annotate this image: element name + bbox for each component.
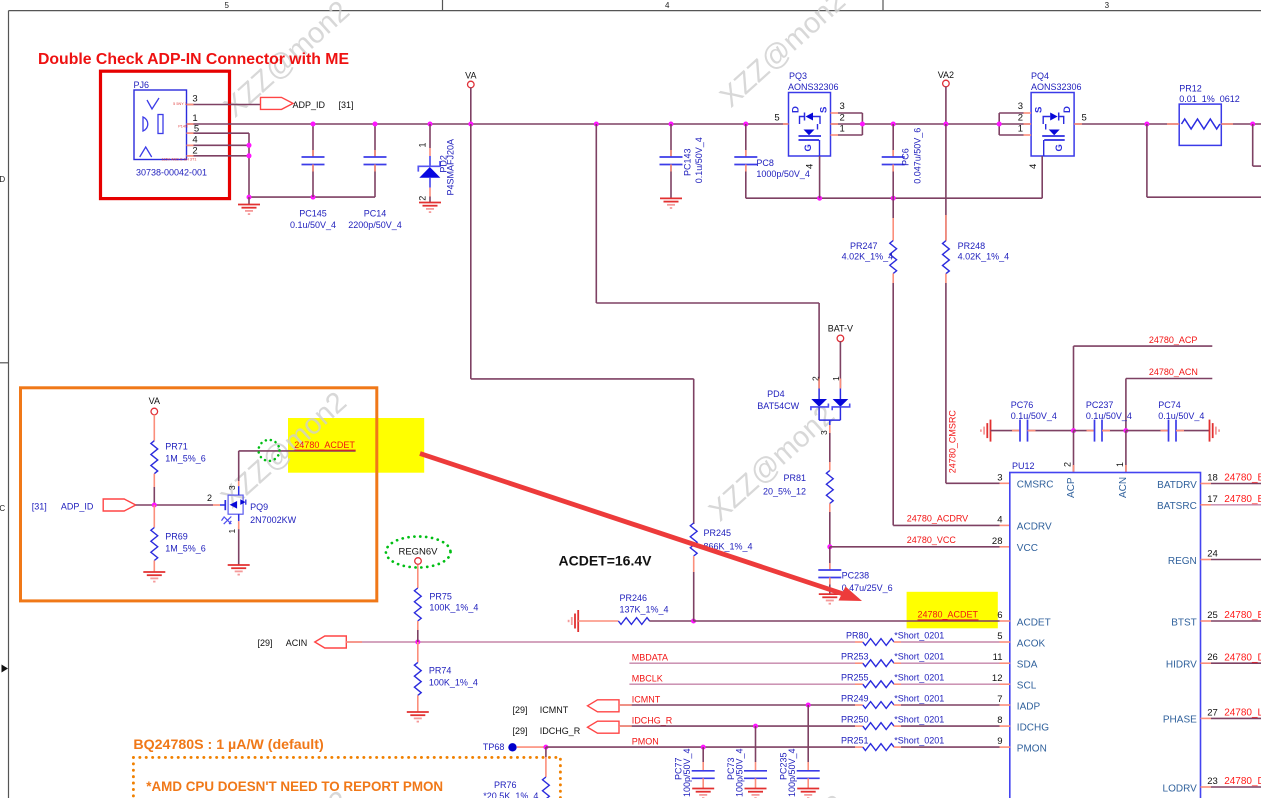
svg-text:6: 6 xyxy=(997,610,1002,621)
svg-text:PC6: PC6 xyxy=(901,148,911,166)
svg-text:REGN6V: REGN6V xyxy=(398,547,438,558)
svg-text:[29]: [29] xyxy=(513,726,528,736)
resistor PR81 xyxy=(826,471,833,504)
svg-text:2: 2 xyxy=(418,196,428,201)
svg-text:18: 18 xyxy=(1207,473,1218,484)
svg-text:S: S xyxy=(1034,107,1045,113)
resistor PR255 xyxy=(855,683,863,685)
svg-text:4: 4 xyxy=(805,164,816,169)
svg-text:PC237: PC237 xyxy=(1086,400,1114,410)
capacitor PC238 xyxy=(829,547,831,570)
yellow highlight 1 (24780_ACDET at PQ9) xyxy=(288,418,424,473)
svg-text:9: 9 xyxy=(997,736,1002,747)
resistor PR250 xyxy=(855,725,863,727)
svg-text:5 5NY 1: 5 5NY 1 xyxy=(173,102,187,106)
svg-text:1: 1 xyxy=(1018,124,1023,135)
svg-text:24780_CMSRC: 24780_CMSRC xyxy=(947,410,957,474)
svg-text:27: 27 xyxy=(1207,707,1218,718)
svg-text:PQ3: PQ3 xyxy=(789,71,807,81)
svg-text:4: 4 xyxy=(665,1,670,10)
svg-text:*Short_0201: *Short_0201 xyxy=(894,715,944,725)
svg-text:24780_DRVL: 24780_DRVL xyxy=(1224,776,1261,787)
red arrow annotation xyxy=(420,454,848,596)
yellow highlight 2 (24780_ACDET at pin 6) xyxy=(907,592,998,629)
svg-text:*Short_0201: *Short_0201 xyxy=(894,736,944,746)
svg-text:BTST: BTST xyxy=(1171,617,1197,628)
svg-text:PMON: PMON xyxy=(632,737,659,747)
svg-text:3: 3 xyxy=(840,101,845,112)
capacitor PC14 xyxy=(374,124,376,157)
svg-text:PHASE: PHASE xyxy=(1163,715,1197,726)
resistor PR80 xyxy=(855,641,863,643)
capacitor PC145 xyxy=(312,124,314,157)
resistor PR249 xyxy=(855,704,863,706)
svg-text:*Short_0201: *Short_0201 xyxy=(894,652,944,662)
svg-text:IDCHG_R: IDCHG_R xyxy=(540,726,581,736)
svg-text:4.02K_1%_4: 4.02K_1%_4 xyxy=(842,252,894,262)
resistor PR74 xyxy=(417,642,419,662)
red callout box around PJ6 xyxy=(101,71,230,198)
svg-text:2: 2 xyxy=(1018,113,1023,124)
svg-text:24780_DRVH: 24780_DRVH xyxy=(1224,652,1261,663)
ground at PC143 xyxy=(660,197,682,199)
wire: rail to PD4 pin2 (down at x=596) xyxy=(594,122,599,127)
wire: PJ6 pins 5/4/2 to ground rail xyxy=(248,133,250,197)
resistor PR247 xyxy=(892,198,894,218)
svg-text:*Short_0201: *Short_0201 xyxy=(894,673,944,683)
resistor PR251 xyxy=(855,746,863,748)
svg-text:TP68: TP68 xyxy=(483,742,505,752)
capacitor PC73 xyxy=(755,726,757,762)
svg-text:23: 23 xyxy=(1207,776,1218,787)
ground at PC238 xyxy=(819,593,841,595)
svg-text:AONS32306: AONS32306 xyxy=(1031,82,1082,92)
svg-text:P4SMAFJ20A: P4SMAFJ20A xyxy=(446,139,456,196)
wire: ICMNT/IADP row (pin 7) xyxy=(619,704,855,706)
ground left of PC76 xyxy=(990,420,992,442)
svg-text:ACN: ACN xyxy=(1118,477,1129,498)
wire: PR81 to VCC pin 28 xyxy=(829,512,831,547)
svg-text:PR248: PR248 xyxy=(958,241,986,251)
svg-text:8: 8 xyxy=(997,715,1002,726)
svg-text:PMON: PMON xyxy=(1017,743,1047,754)
svg-text:1M_5%_6: 1M_5%_6 xyxy=(165,544,206,554)
svg-text:4: 4 xyxy=(997,514,1002,525)
svg-text:BATDRV: BATDRV xyxy=(1157,480,1197,491)
svg-text:3: 3 xyxy=(1018,101,1023,112)
svg-text:VA: VA xyxy=(149,396,160,406)
svg-text:100K_1%_4: 100K_1%_4 xyxy=(429,678,478,688)
svg-text:100p/50V_4: 100p/50V_4 xyxy=(787,748,797,797)
svg-text:G: G xyxy=(803,144,814,151)
wire: PMON row (pin 9) xyxy=(543,745,548,750)
svg-text:D: D xyxy=(0,175,5,184)
svg-text:ADP_ID: ADP_ID xyxy=(293,100,326,110)
svg-text:PR80: PR80 xyxy=(846,631,869,641)
wire: rail PQ3 right to PQ4 left xyxy=(831,123,1032,125)
green ok-mark circle xyxy=(259,440,280,461)
svg-text:VCC: VCC xyxy=(1017,543,1038,554)
wire: PQ9 drain lead xyxy=(238,486,240,495)
svg-text:*20.5K_1%_4: *20.5K_1%_4 xyxy=(483,791,538,798)
svg-text:24780_VCC: 24780_VCC xyxy=(907,535,957,545)
svg-text:2N7002KW: 2N7002KW xyxy=(250,515,297,525)
svg-text:LODRV: LODRV xyxy=(1163,783,1198,794)
svg-text:CMSRC: CMSRC xyxy=(1017,480,1054,491)
svg-text:*Short_0201: *Short_0201 xyxy=(894,631,944,641)
svg-text:4: 4 xyxy=(1028,164,1039,169)
svg-text:Double Check ADP-IN Connector: Double Check ADP-IN Connector with ME xyxy=(38,51,349,68)
svg-text:11: 11 xyxy=(993,652,1003,663)
svg-text:REGN: REGN xyxy=(1168,556,1197,567)
svg-text:ACDET=16.4V: ACDET=16.4V xyxy=(559,553,653,569)
svg-text:PD4: PD4 xyxy=(767,389,785,399)
ground at PR69 xyxy=(143,571,165,573)
capacitor PC74 xyxy=(1126,430,1169,432)
svg-text:0.1u/50V_4: 0.1u/50V_4 xyxy=(1011,411,1057,421)
svg-text:PC8: PC8 xyxy=(756,158,774,168)
resistor PR245 xyxy=(693,523,695,525)
svg-text:5: 5 xyxy=(774,113,779,124)
svg-text:3: 3 xyxy=(819,430,829,435)
wire: IDCHG_R/IDCHG row (pin 8) xyxy=(619,725,855,727)
svg-text:D: D xyxy=(1062,106,1073,113)
svg-text:12: 12 xyxy=(992,673,1003,684)
border frame xyxy=(9,10,1261,12)
svg-text:24: 24 xyxy=(1207,549,1218,560)
svg-text:30738-00042-001: 30738-00042-001 xyxy=(136,168,207,178)
svg-text:BATSRC: BATSRC xyxy=(1157,501,1197,512)
svg-text:PR247: PR247 xyxy=(850,241,878,251)
svg-text:PC76: PC76 xyxy=(1011,400,1034,410)
wire: right edge drop xyxy=(1250,122,1255,127)
svg-text:[29]: [29] xyxy=(513,705,528,715)
wire: PR247 to ACDRV pin 4 xyxy=(892,283,894,525)
resistor PR71 xyxy=(151,441,158,474)
wire: rail PQ4 right to PR12 and right edge xyxy=(1074,123,1179,125)
svg-text:2200p/50V_4: 2200p/50V_4 xyxy=(348,220,402,230)
ground at PD2 xyxy=(419,202,441,204)
svg-text:HIDRV: HIDRV xyxy=(1166,660,1197,671)
connector PJ6 xyxy=(134,90,187,160)
svg-text:BAT-V: BAT-V xyxy=(828,324,853,334)
orange callout box around ADP_ID divider xyxy=(21,388,377,601)
svg-text:VA2: VA2 xyxy=(938,70,954,80)
svg-text:1: 1 xyxy=(1115,462,1125,467)
svg-text:3: 3 xyxy=(1105,1,1110,10)
svg-text:MBCLK: MBCLK xyxy=(632,674,663,684)
svg-text:BAT54CW: BAT54CW xyxy=(757,401,799,411)
port ADP_ID (sheet 31) xyxy=(261,97,294,109)
svg-text:100K_1%_4: 100K_1%_4 xyxy=(429,603,478,613)
svg-text:24780_ACDRV: 24780_ACDRV xyxy=(907,514,968,524)
wire: VA to ACDET divider (down at x=471) xyxy=(470,124,472,379)
svg-text:ICMNT: ICMNT xyxy=(632,695,661,705)
svg-text:G: G xyxy=(1054,144,1065,151)
wire: ACDET row (pin 6) xyxy=(577,610,579,632)
wire: PQ9 drain to net 24780_ACDET xyxy=(239,450,356,452)
svg-text:ICMNT: ICMNT xyxy=(540,705,569,715)
svg-text:17: 17 xyxy=(1207,494,1218,505)
svg-text:0.047u/50V_6: 0.047u/50V_6 xyxy=(913,128,923,184)
svg-text:*AMD CPU DOESN'T NEED TO REPOR: *AMD CPU DOESN'T NEED TO REPORT PMON xyxy=(146,779,443,794)
svg-text:[29]: [29] xyxy=(258,638,273,648)
capacitor PC6 xyxy=(891,122,896,127)
node REGN6V (green ellipse) xyxy=(386,537,451,568)
wire: gate rail under PQ3/PQ4 xyxy=(746,197,1042,199)
svg-text:PR246: PR246 xyxy=(620,593,648,603)
svg-text:137K_1%_4: 137K_1%_4 xyxy=(620,605,669,615)
svg-text:100p/50V_4: 100p/50V_4 xyxy=(734,748,744,797)
svg-text:SCL: SCL xyxy=(1017,681,1037,692)
svg-text:PC238: PC238 xyxy=(842,571,870,581)
svg-text:24780_ACDET: 24780_ACDET xyxy=(294,440,355,450)
svg-text:4.02K_1%_4: 4.02K_1%_4 xyxy=(958,252,1010,262)
svg-text:28: 28 xyxy=(992,536,1003,547)
ground at PC77 xyxy=(692,788,714,790)
svg-text:5: 5 xyxy=(224,1,229,10)
svg-text:PR253: PR253 xyxy=(841,652,869,662)
svg-text:0.01_1%_0612: 0.01_1%_0612 xyxy=(1179,94,1240,104)
wire: sense bypass under PR12 xyxy=(1144,122,1149,127)
svg-text:3: 3 xyxy=(227,485,237,490)
wire: PQ9 source to ground xyxy=(238,514,240,521)
svg-text:AONS32306: AONS32306 xyxy=(788,82,839,92)
svg-text:25: 25 xyxy=(1207,610,1218,621)
svg-text:3: 3 xyxy=(997,472,1002,483)
capacitor PC76 xyxy=(991,430,1021,432)
svg-text:PR81: PR81 xyxy=(783,473,806,483)
svg-text:2: 2 xyxy=(207,493,212,503)
svg-text:[31]: [31] xyxy=(339,100,354,110)
svg-text:PR71: PR71 xyxy=(165,442,188,452)
svg-text:24780_BATSRC: 24780_BATSRC xyxy=(1224,494,1261,505)
svg-text:PR250: PR250 xyxy=(841,715,869,725)
capacitor PC8 xyxy=(743,122,748,127)
svg-text:1: 1 xyxy=(227,529,237,534)
wire: PR248 to CMSRC pin 3 (net 24780_CMSRC) xyxy=(945,283,947,483)
wire: VA rail from PJ6 pin1 to PQ3 xyxy=(187,123,789,125)
svg-text:PR255: PR255 xyxy=(841,673,869,683)
svg-text:*Short_0201: *Short_0201 xyxy=(894,694,944,704)
svg-text:ADP_ID: ADP_ID xyxy=(61,502,94,512)
svg-text:VA: VA xyxy=(465,71,476,81)
svg-text:ACOK: ACOK xyxy=(1017,638,1046,649)
svg-text:PR76: PR76 xyxy=(494,780,517,790)
wire: gnd rail under PC145/PC14 xyxy=(249,196,375,198)
svg-text:MBDATA: MBDATA xyxy=(632,653,668,663)
svg-text:BQ24780S : 1 µA/W (default): BQ24780S : 1 µA/W (default) xyxy=(133,737,324,753)
diode PD2 P4SMAFJ20A (TVS) xyxy=(428,122,433,127)
capacitor PC143 xyxy=(669,122,674,127)
svg-text:2: 2 xyxy=(840,113,845,124)
svg-text:24780_ACP: 24780_ACP xyxy=(1149,335,1198,345)
svg-text:5: 5 xyxy=(997,631,1002,642)
junction ACN xyxy=(1123,428,1128,433)
svg-text:24780_LX: 24780_LX xyxy=(1224,708,1261,719)
orange dotted note box xyxy=(133,757,560,798)
svg-text:PC74: PC74 xyxy=(1158,400,1181,410)
ground at PR74 xyxy=(407,711,429,713)
svg-text:PR245: PR245 xyxy=(704,528,732,538)
svg-text:IDCHG_R: IDCHG_R xyxy=(632,716,673,726)
svg-text:115V AND S SH 3T1: 115V AND S SH 3T1 xyxy=(162,158,197,162)
wire: ADP_ID to PQ9 gate xyxy=(136,504,213,506)
svg-text:1: 1 xyxy=(418,142,428,147)
svg-text:ACDET: ACDET xyxy=(1017,617,1051,628)
capacitor PC77 xyxy=(702,747,704,762)
svg-text:1: 1 xyxy=(840,124,845,135)
svg-text:D: D xyxy=(791,106,802,113)
ground at PJ6 xyxy=(248,197,250,204)
resistor PR69 xyxy=(153,505,155,528)
svg-text:3: 3 xyxy=(192,94,197,105)
ground at PC235 xyxy=(797,788,819,790)
svg-text:ACP: ACP xyxy=(1066,477,1077,498)
svg-text:24780_ACN: 24780_ACN xyxy=(1149,367,1198,377)
svg-text:S: S xyxy=(819,107,830,113)
svg-text:PJ6: PJ6 xyxy=(134,80,150,90)
svg-text:PR251: PR251 xyxy=(841,736,869,746)
svg-text:PC143: PC143 xyxy=(682,148,692,176)
svg-text:0.1u/50V_4: 0.1u/50V_4 xyxy=(1086,411,1132,421)
svg-text:PR249: PR249 xyxy=(841,694,869,704)
ground right of PC74 xyxy=(1209,420,1211,442)
svg-text:PR75: PR75 xyxy=(429,592,452,602)
svg-text:[31]: [31] xyxy=(32,502,47,512)
svg-text:7: 7 xyxy=(997,694,1002,705)
capacitor PC235 xyxy=(807,705,809,762)
svg-text:24780_BATDRV: 24780_BATDRV xyxy=(1224,473,1261,484)
right pin wires + net labels xyxy=(1201,483,1212,485)
resistor PR76 xyxy=(545,747,547,757)
svg-text:1: 1 xyxy=(192,113,197,124)
svg-text:PR74: PR74 xyxy=(429,666,452,676)
svg-text:0.1u/50V_4: 0.1u/50V_4 xyxy=(290,220,336,230)
capacitor PC237 xyxy=(1074,430,1095,432)
svg-text:IADP: IADP xyxy=(1017,701,1041,712)
svg-text:1M_5%_6: 1M_5%_6 xyxy=(165,454,206,464)
resistor PR253 xyxy=(855,662,863,664)
svg-text:PR69: PR69 xyxy=(165,532,188,542)
svg-text:0.1u/50V_4: 0.1u/50V_4 xyxy=(1158,411,1204,421)
svg-text:PQ9: PQ9 xyxy=(250,502,268,512)
ground at PQ9 xyxy=(228,564,250,566)
wire ACN pin 1 xyxy=(1125,431,1127,473)
svg-text:2: 2 xyxy=(1062,462,1072,467)
svg-text:26: 26 xyxy=(1207,652,1218,663)
svg-text:24780_ACDET: 24780_ACDET xyxy=(918,610,979,620)
svg-text:PC145: PC145 xyxy=(299,209,327,219)
svg-text:ACIN: ACIN xyxy=(286,638,308,648)
svg-text:2: 2 xyxy=(192,146,197,157)
svg-text:5: 5 xyxy=(1081,113,1086,124)
ground at PC73 xyxy=(745,788,767,790)
resistor PR248 xyxy=(945,215,947,241)
wire ACP pin 2 xyxy=(1073,431,1075,473)
svg-text:C: C xyxy=(0,504,5,513)
wire: VA2 down to PR248 xyxy=(945,124,947,241)
svg-text:0.1u/50V_4: 0.1u/50V_4 xyxy=(694,137,704,183)
resistor PR75 xyxy=(417,565,419,588)
svg-text:20_5%_12: 20_5%_12 xyxy=(763,487,806,497)
svg-text:PQ4: PQ4 xyxy=(1031,71,1049,81)
svg-text:PC14: PC14 xyxy=(364,209,387,219)
svg-text:100p/50V_4: 100p/50V_4 xyxy=(682,748,692,797)
svg-text:IDCHG: IDCHG xyxy=(1017,722,1049,733)
svg-text:XZZ@mon2: XZZ@mon2 xyxy=(703,399,841,528)
junction ACP xyxy=(1071,428,1076,433)
wire: PD4 pin3 to PR81 xyxy=(829,433,831,462)
svg-text:PR12: PR12 xyxy=(1179,84,1202,94)
svg-text:PU12: PU12 xyxy=(1012,461,1035,471)
svg-text:24780_BTST: 24780_BTST xyxy=(1224,610,1261,621)
svg-text:ACDRV: ACDRV xyxy=(1017,522,1052,533)
svg-text:1000p/50V_4: 1000p/50V_4 xyxy=(756,169,810,179)
svg-text:SDA: SDA xyxy=(1017,660,1038,671)
svg-text:P14N: P14N xyxy=(178,125,188,129)
svg-text:4: 4 xyxy=(192,135,197,146)
